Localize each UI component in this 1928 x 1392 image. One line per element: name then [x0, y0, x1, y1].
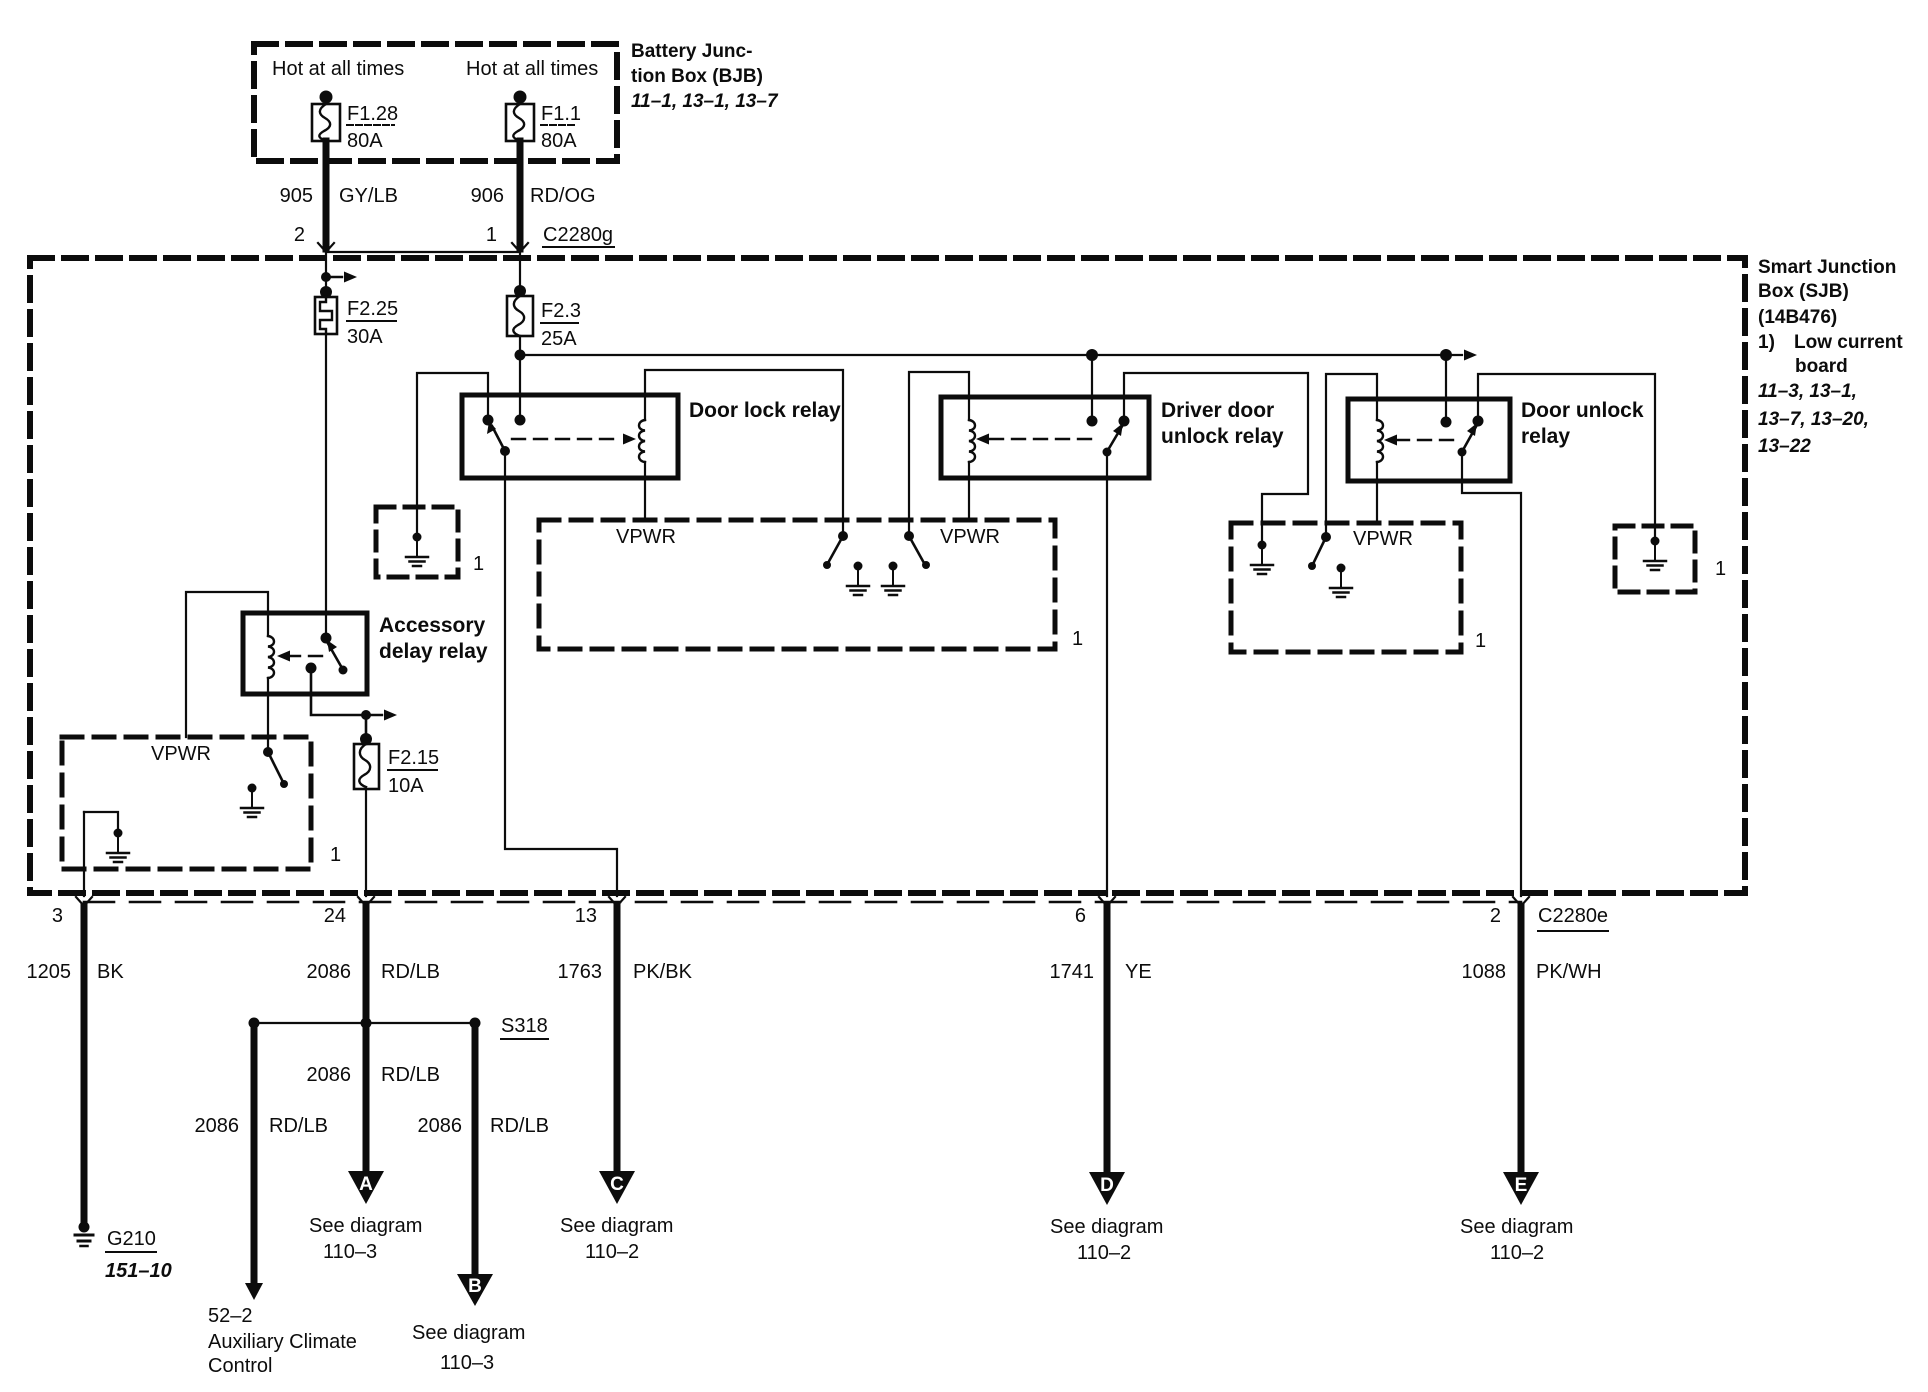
svg-text:PK/BK: PK/BK: [633, 961, 693, 983]
svg-text:Control: Control: [208, 1355, 272, 1377]
svg-text:See diagram: See diagram: [412, 1322, 525, 1344]
svg-text:Box (SJB): Box (SJB): [1758, 281, 1849, 302]
svg-text:110–3: 110–3: [440, 1352, 494, 1374]
fuse F1.28 80A: [312, 91, 398, 153]
wire 2086 RD/LB (right branch): [418, 1023, 549, 1274]
connector label C2280e: [1538, 905, 1608, 927]
node: junction on F2.25 feed: [321, 272, 331, 282]
door unlock relay armature link: [1384, 435, 1456, 446]
fuse F1.1 80A: [506, 91, 581, 153]
svg-text:BK: BK: [97, 961, 124, 983]
svg-text:F2.25: F2.25: [347, 298, 398, 320]
svg-text:C2280g: C2280g: [543, 224, 613, 246]
SJB pin 2 terminal: [1513, 897, 1529, 906]
svg-text:unlock relay: unlock relay: [1161, 425, 1284, 448]
svg-text:See diagram: See diagram: [560, 1215, 673, 1237]
accessory relay armature link: [277, 651, 322, 662]
svg-text:C: C: [610, 1174, 624, 1195]
right ground module (low current board): [1615, 526, 1695, 592]
destination text below arrow D: [1050, 1216, 1163, 1264]
svg-text:2086: 2086: [307, 1064, 352, 1086]
svg-text:VPWR: VPWR: [151, 743, 211, 765]
VPWR module (wide, low current board): [539, 520, 1055, 649]
svg-text:1088: 1088: [1462, 961, 1507, 983]
wire 1763 PK/BK: [558, 906, 693, 1170]
relay: driver door unlock relay box: [941, 397, 1149, 478]
svg-text:1205: 1205: [27, 961, 72, 983]
wire: unlock relay blade common to right ground module: [1478, 374, 1655, 541]
accessory relay coil: [268, 636, 274, 678]
svg-text:1): 1): [1758, 332, 1775, 353]
svg-text:151–10: 151–10: [105, 1260, 172, 1282]
svg-text:52–2: 52–2: [208, 1305, 253, 1327]
wire 1088 PK/WH: [1462, 906, 1602, 1172]
driver door unlock relay title: [1161, 399, 1284, 448]
svg-text:G210: G210: [107, 1228, 156, 1250]
svg-text:1: 1: [330, 844, 341, 866]
svg-text:Door lock relay: Door lock relay: [689, 399, 841, 422]
svg-text:110–2: 110–2: [1490, 1242, 1544, 1264]
wire: VPWR bus across SJB: [520, 354, 1462, 356]
ground stub in left module: [241, 784, 263, 818]
VPWR module (left, low current board): [62, 737, 311, 869]
unlock command switch (low current board): [904, 531, 930, 569]
node: bus junction to driver door unlock relay: [1086, 349, 1098, 361]
node: VPWR bus junction at F2.3: [515, 350, 526, 361]
svg-text:F2.3: F2.3: [541, 300, 581, 322]
svg-text:relay: relay: [1521, 425, 1570, 448]
delay switch (low current board): [263, 747, 288, 788]
accessory relay blade: [321, 633, 348, 675]
wire: F2.15 to pin 24: [365, 789, 367, 896]
svg-text:1: 1: [473, 553, 484, 575]
arrow tap right of junction: [366, 710, 397, 721]
wire: pin 1 feed to fuse F2.3: [519, 252, 521, 291]
VPWR module (middle, low current board): [1231, 523, 1461, 652]
svg-text:See diagram: See diagram: [309, 1215, 422, 1237]
arrow tap right of junction: [326, 272, 357, 283]
wire 906 RD/OG: [471, 141, 596, 249]
svg-text:1: 1: [1072, 628, 1083, 650]
wire: driver relay coil top to unlock command switch: [909, 372, 969, 536]
svg-text:13: 13: [575, 905, 597, 927]
arrowhead (left branch): [245, 1283, 263, 1300]
svg-text:2086: 2086: [307, 961, 352, 983]
svg-text:See diagram: See diagram: [1460, 1216, 1573, 1238]
driver relay NO contact: [1087, 416, 1098, 427]
door unlock relay NO contact: [1441, 417, 1452, 428]
svg-text:80A: 80A: [347, 130, 383, 152]
svg-text:D: D: [1100, 1175, 1114, 1196]
BJB title: [631, 41, 779, 112]
svg-text:1: 1: [1715, 558, 1726, 580]
destination text below arrow E: [1460, 1216, 1573, 1264]
wire: unlock relay coil top to unlock switch: [1326, 374, 1377, 537]
wire label 2086 RD/LB (below splice): [307, 1064, 440, 1086]
door lock relay NO contact: [515, 415, 526, 426]
svg-text:A: A: [359, 1174, 373, 1195]
svg-text:RD/LB: RD/LB: [381, 1064, 440, 1086]
svg-text:Accessory: Accessory: [379, 614, 486, 637]
SJB pin 3 terminal: [76, 897, 92, 906]
door unlock relay title: [1521, 399, 1644, 448]
svg-text:B: B: [468, 1276, 482, 1297]
svg-text:F2.15: F2.15: [388, 747, 439, 769]
svg-text:13–22: 13–22: [1758, 436, 1811, 457]
svg-text:RD/LB: RD/LB: [269, 1115, 328, 1137]
wire: driver relay output to pin 6: [1106, 452, 1108, 896]
connector line C2280e along SJB bottom: [84, 901, 1521, 904]
svg-text:25A: 25A: [541, 328, 577, 350]
wire: accessory coil top to VPWR module: [186, 592, 268, 737]
wire 2086 RD/LB (pin 24): [307, 906, 440, 1170]
destination text below arrow B: [412, 1322, 525, 1374]
accessory relay output contact: [306, 663, 317, 674]
fuse F2.25 30A: [315, 286, 398, 348]
svg-text:Hot at all times: Hot at all times: [466, 58, 598, 80]
ground symbol (driver relay common): [1251, 541, 1273, 575]
door lock relay coil: [639, 420, 645, 462]
wire 905 GY/LB: [280, 141, 398, 249]
svg-text:RD/LB: RD/LB: [490, 1115, 549, 1137]
svg-text:1741: 1741: [1050, 961, 1095, 983]
driver relay blade: [1103, 416, 1130, 457]
svg-text:GY/LB: GY/LB: [339, 185, 398, 207]
node: bus junction to door unlock relay: [1440, 349, 1452, 361]
svg-text:2086: 2086: [418, 1115, 463, 1137]
fuse F2.3 25A: [507, 285, 581, 350]
svg-text:1763: 1763: [558, 961, 603, 983]
wire 2086 RD/LB (left branch to auxiliary climate control): [195, 1023, 328, 1286]
svg-text:F1.1: F1.1: [541, 103, 581, 125]
svg-text:2: 2: [294, 224, 305, 246]
svg-text:Smart Junction: Smart Junction: [1758, 257, 1896, 278]
door lock relay blade: [487, 421, 510, 456]
driver relay armature link: [976, 434, 1100, 445]
wire: left module to pin 3: [83, 812, 85, 896]
wire: lock relay output to pin 13: [505, 451, 617, 896]
arrow E: [1503, 1172, 1539, 1205]
ground stub in middle module: [1330, 564, 1352, 598]
svg-text:13–7, 13–20,: 13–7, 13–20,: [1758, 409, 1869, 430]
wire: bus to door unlock relay NO contact: [1445, 355, 1447, 422]
splice S318: [249, 1015, 549, 1039]
accessory delay relay title: [379, 614, 488, 663]
arrow C: [599, 1171, 635, 1204]
wire: accessory coil bottom to delay switch: [267, 678, 269, 752]
wire: F2.3 to door lock relay NO contact: [519, 336, 521, 421]
svg-text:(14B476): (14B476): [1758, 307, 1837, 328]
door unlock relay blade: [1458, 416, 1484, 457]
svg-text:10A: 10A: [388, 775, 424, 797]
fuse F2.15 10A: [354, 733, 439, 797]
connector C2280g: [294, 224, 614, 252]
Smart Junction Box (SJB) enclosure: [30, 258, 1745, 893]
ground stub B in VPWR module: [882, 562, 904, 596]
svg-text:1: 1: [1475, 630, 1486, 652]
wire: accessory relay output to F2.15: [311, 668, 366, 744]
wire 1741 YE: [1050, 906, 1152, 1172]
ground symbol (left module): [107, 829, 129, 863]
svg-text:YE: YE: [1125, 961, 1152, 983]
svg-text:11–1, 13–1, 13–7: 11–1, 13–1, 13–7: [631, 91, 779, 112]
destination text 52-2 Auxiliary Climate Control: [208, 1305, 357, 1377]
svg-text:2: 2: [1490, 905, 1501, 927]
SJB title block: [1758, 257, 1903, 457]
arrowhead at end of VPWR bus: [1464, 350, 1477, 361]
wire: unlock relay coil bottom to VPWR: [1376, 462, 1378, 523]
svg-text:Driver door: Driver door: [1161, 399, 1274, 422]
arrow D: [1089, 1172, 1125, 1205]
door unlock relay coil: [1377, 420, 1383, 462]
svg-text:tion Box (BJB): tion Box (BJB): [631, 66, 763, 87]
svg-text:Door unlock: Door unlock: [1521, 399, 1644, 422]
svg-text:6: 6: [1075, 905, 1086, 927]
svg-text:905: 905: [280, 185, 313, 207]
svg-text:906: 906: [471, 185, 504, 207]
wire: bus to driver relay NO contact: [1091, 355, 1093, 421]
relay: accessory delay relay box: [243, 613, 367, 694]
arrow B: [457, 1274, 493, 1306]
arrow A: [348, 1171, 384, 1204]
svg-text:VPWR: VPWR: [940, 526, 1000, 548]
node: junction on accessory output: [361, 710, 371, 720]
door lock relay armature link: [512, 434, 636, 445]
svg-text:E: E: [1515, 1175, 1528, 1196]
svg-text:Low current: Low current: [1794, 332, 1903, 353]
ground symbol in module: [406, 533, 428, 567]
relay: door lock relay box: [462, 395, 678, 478]
SJB pin 13 terminal: [609, 897, 625, 906]
SJB pin 6 terminal: [1099, 897, 1115, 906]
SJB pin 24 terminal: [358, 897, 374, 906]
svg-text:24: 24: [324, 905, 346, 927]
Battery Junction Box (BJB) enclosure: [254, 44, 617, 161]
destination text below arrow C: [560, 1215, 673, 1263]
wire: NC contact to ground module: [417, 373, 488, 537]
wire: lock relay coil to VPWR: [644, 462, 646, 520]
svg-text:1: 1: [486, 224, 497, 246]
svg-text:S318: S318: [501, 1015, 548, 1037]
wire: F2.25 to accessory delay relay switch: [325, 334, 327, 638]
svg-text:VPWR: VPWR: [1353, 528, 1413, 550]
svg-text:board: board: [1795, 356, 1848, 377]
svg-text:PK/WH: PK/WH: [1536, 961, 1602, 983]
svg-text:110–2: 110–2: [585, 1241, 639, 1263]
svg-text:VPWR: VPWR: [616, 526, 676, 548]
wire: pin 2 feed to fuse F2.25: [325, 252, 327, 292]
svg-text:2086: 2086: [195, 1115, 240, 1137]
lock command switch (low current board): [823, 531, 848, 569]
ground module (low current board) below lock relay: [376, 507, 458, 577]
ground G210: [75, 1222, 172, 1283]
svg-text:3: 3: [52, 905, 63, 927]
svg-text:F1.28: F1.28: [347, 103, 398, 125]
svg-text:delay relay: delay relay: [379, 640, 488, 663]
wire: pin 3 riser to ground symbol: [84, 812, 118, 832]
svg-text:110–2: 110–2: [1077, 1242, 1131, 1264]
svg-text:Auxiliary Climate: Auxiliary Climate: [208, 1331, 357, 1353]
wire: unlock relay output to pin 2: [1462, 452, 1521, 896]
driver relay coil: [969, 420, 975, 462]
svg-text:30A: 30A: [347, 326, 383, 348]
svg-text:See diagram: See diagram: [1050, 1216, 1163, 1238]
ground stub A in VPWR module: [847, 562, 869, 596]
svg-text:11–3, 13–1,: 11–3, 13–1,: [1758, 381, 1857, 402]
wire 1205 BK: [27, 906, 125, 1222]
door lock relay NC contact: [483, 415, 494, 426]
relay: door unlock relay box: [1348, 399, 1510, 481]
svg-text:110–3: 110–3: [323, 1241, 377, 1263]
wire: driver relay blade common to ground in module: [1124, 373, 1308, 541]
svg-text:C2280e: C2280e: [1538, 905, 1608, 927]
svg-text:80A: 80A: [541, 130, 577, 152]
destination text below arrow A: [309, 1215, 422, 1263]
svg-text:RD/LB: RD/LB: [381, 961, 440, 983]
svg-text:Battery Junc-: Battery Junc-: [631, 41, 752, 62]
svg-text:Hot at all times: Hot at all times: [272, 58, 404, 80]
svg-text:RD/OG: RD/OG: [530, 185, 596, 207]
unlock command switch 2 (low current board): [1308, 532, 1331, 570]
ground symbol in right module: [1644, 537, 1666, 571]
wire: driver relay coil bottom to VPWR: [968, 462, 970, 520]
wire: coil top to lock command switch: [645, 370, 843, 536]
